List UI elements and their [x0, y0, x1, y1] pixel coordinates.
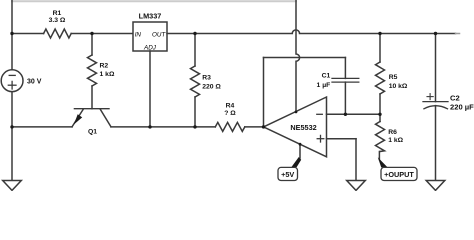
capacitor C2 polarized — [423, 102, 448, 109]
svg-text:C2: C2 — [450, 93, 460, 102]
wire R2 to base — [91, 86, 93, 109]
wire opamp bottom supply — [299, 144, 301, 158]
svg-text:R3: R3 — [202, 74, 211, 81]
svg-text:1 µF: 1 µF — [317, 82, 331, 89]
wire C2 stem top — [435, 34, 437, 102]
plus mark C2 — [427, 94, 433, 100]
wire IN segment left — [12, 33, 44, 35]
svg-text:10 kΩ: 10 kΩ — [389, 83, 408, 90]
wire C1 stem top — [344, 58, 346, 79]
wire supply vertical with hop — [296, 0, 300, 112]
svg-text:? Ω: ? Ω — [224, 110, 236, 117]
svg-text:R2: R2 — [100, 63, 109, 70]
svg-text:R6: R6 — [388, 129, 397, 136]
svg-text:+OUPUT: +OUPUT — [384, 170, 414, 179]
voltage source V1 30 V — [1, 70, 23, 92]
wire feedback vertical — [263, 58, 265, 127]
svg-text:1 kΩ: 1 kΩ — [100, 71, 115, 78]
wire R2 stem top — [91, 34, 93, 56]
svg-text:30 V: 30 V — [27, 79, 42, 86]
wire C2 stem bottom — [435, 106, 437, 181]
wire R3 stem bottom — [194, 97, 196, 127]
svg-text:IN: IN — [135, 32, 142, 39]
wire rail cropped fade — [456, 33, 460, 35]
wire C1 stem bottom — [344, 82, 346, 114]
resistor R1 — [44, 29, 72, 38]
wire left vertical top — [11, 0, 13, 70]
wire R4 to opamp — [245, 126, 264, 128]
svg-text:R5: R5 — [389, 74, 398, 81]
ground middle — [347, 181, 366, 191]
net flag +OUPUT — [381, 167, 417, 180]
wire plus to ground — [355, 139, 357, 181]
wire ADJ stem — [149, 51, 151, 127]
wire left vertical bottom — [11, 92, 13, 181]
svg-text:1 kΩ: 1 kΩ — [388, 137, 403, 144]
op-amp U2 NE5532 — [264, 97, 327, 157]
wire feedback horizontal — [264, 57, 346, 59]
resistor R2 — [88, 55, 97, 86]
wire plus input — [327, 138, 357, 140]
junction node dots — [10, 32, 437, 146]
regulator U1 LM337 — [133, 22, 167, 51]
svg-text:220 Ω: 220 Ω — [202, 83, 221, 90]
transistor Q1 — [72, 109, 111, 127]
wire bottom middle — [111, 126, 215, 128]
ground right — [426, 181, 445, 191]
flag wedge 5V — [291, 157, 301, 167]
capacitor C1 — [332, 78, 359, 82]
svg-text:Q1: Q1 — [88, 129, 97, 136]
svg-text:R4: R4 — [226, 103, 235, 110]
wire top cropped gray — [12, 0, 296, 2]
svg-text:LM337: LM337 — [139, 12, 162, 21]
wire R6 stub — [378, 152, 380, 160]
svg-text:220 µF: 220 µF — [450, 103, 474, 112]
svg-text:NE5532: NE5532 — [290, 123, 316, 132]
net flag +5V — [278, 167, 298, 180]
wire minus input — [327, 113, 381, 115]
svg-text:3.3 Ω: 3.3 Ω — [49, 17, 66, 24]
resistor R3 — [191, 66, 200, 97]
wire IN segment right — [71, 33, 133, 35]
wire R5 stem top — [379, 34, 381, 63]
wire bottom left — [12, 126, 72, 128]
wire R3 stem top — [194, 34, 196, 67]
wire R6 stem top — [379, 114, 381, 121]
svg-text:+5V: +5V — [281, 170, 294, 179]
svg-text:OUT: OUT — [152, 32, 166, 39]
ground left — [3, 181, 22, 191]
flag wedge OUPUT — [378, 157, 388, 167]
wire OUT rail with hop — [167, 30, 456, 34]
svg-text:R1: R1 — [53, 10, 62, 17]
svg-text:C1: C1 — [322, 73, 331, 80]
wire R5 stem bottom — [379, 94, 381, 114]
resistor R5 — [376, 62, 385, 94]
resistor R6 — [376, 122, 385, 152]
resistor R4 — [215, 122, 245, 131]
